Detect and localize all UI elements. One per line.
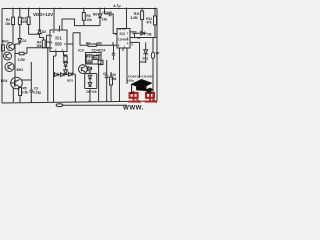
resistor R5 body xyxy=(19,88,22,96)
wire pin3 vertical xyxy=(72,33,74,75)
diode D3 xyxy=(98,14,102,18)
transistor BG4 xyxy=(11,77,23,89)
watermark chong glyph 1 xyxy=(128,91,140,103)
wire pin2 down long xyxy=(47,48,49,101)
wire pin8 xyxy=(53,9,55,31)
diode D6 xyxy=(55,73,59,77)
transistor BG2 xyxy=(4,52,12,60)
svg-text:47k: 47k xyxy=(146,21,152,25)
wire R3 bottom xyxy=(29,25,40,35)
wire R6 bottom horizontal xyxy=(83,20,85,25)
diode bridge loop xyxy=(85,74,97,89)
resistor R4 body xyxy=(42,40,45,48)
svg-text:BG5: BG5 xyxy=(67,79,74,83)
capacitor C9v xyxy=(133,32,137,38)
transistor BG3 xyxy=(5,63,14,72)
transistor BG1 xyxy=(7,43,15,51)
wire IC2 pin right2 xyxy=(130,37,157,39)
svg-text:VDD+12V: VDD+12V xyxy=(33,12,53,17)
wire right rail xyxy=(156,9,158,102)
wire zener bottom xyxy=(140,42,146,78)
svg-text:0.33μ: 0.33μ xyxy=(33,91,41,95)
IC2 box xyxy=(117,29,130,49)
svg-text:4.7μ: 4.7μ xyxy=(113,4,121,8)
resistor R10a box xyxy=(93,55,99,59)
wire C8 right down xyxy=(113,14,117,34)
transistor BG4 internals xyxy=(15,80,20,87)
wire left rail xyxy=(1,9,3,104)
wire pin2 left to left column xyxy=(27,48,44,53)
wire R1 bottom xyxy=(19,25,21,39)
wire R7 right xyxy=(96,42,117,45)
wire D1 down xyxy=(15,42,20,44)
svg-text:1M: 1M xyxy=(147,33,152,37)
svg-text:WWW.: WWW. xyxy=(123,105,144,110)
wire pin3 top horizontal xyxy=(73,33,80,43)
svg-text:IC2: IC2 xyxy=(120,32,126,36)
wire pin4 xyxy=(59,26,61,31)
resistor R1 body xyxy=(18,17,21,24)
wire IC2 bottom mid xyxy=(126,48,128,84)
capacitor C10b xyxy=(105,60,109,101)
IC3 box xyxy=(86,53,102,65)
wire BG4 base xyxy=(10,82,15,84)
svg-text:8.2M: 8.2M xyxy=(131,16,138,20)
resistor R7 body xyxy=(88,44,96,46)
wire 2.2M right xyxy=(24,52,27,54)
transistor BG2 internals xyxy=(6,54,10,59)
wire pin3 stub xyxy=(67,43,73,45)
svg-text:10k: 10k xyxy=(36,44,42,48)
wire IC2 pin right1 xyxy=(130,31,133,33)
resistor R9 box xyxy=(86,55,92,63)
wire BG4 collector to C3 xyxy=(21,62,31,87)
piezo YD xyxy=(151,52,154,59)
resistor R3 body xyxy=(27,17,30,25)
svg-text:5 C8: 5 C8 xyxy=(102,11,109,15)
wire IC2 pin right3 xyxy=(130,41,140,43)
wire BG4 emitter down xyxy=(19,87,21,88)
watermark chong glyph 2 xyxy=(145,91,157,103)
wire pin7-6 vertical xyxy=(46,35,48,48)
wire D2 bottom to R4 xyxy=(40,34,44,40)
svg-text:15k: 15k xyxy=(5,22,11,26)
wire R7 left xyxy=(80,43,88,45)
IC1 555 box xyxy=(50,30,67,52)
wire R11 bottom xyxy=(141,20,143,34)
svg-text:0.5k: 0.5k xyxy=(22,91,28,95)
wire BG4 second lead xyxy=(12,88,14,102)
wire 555 top link xyxy=(62,19,100,30)
wire R1 top xyxy=(19,9,21,18)
wire diode row xyxy=(54,73,76,75)
wire left column vertical xyxy=(14,44,16,87)
capacitor C7 xyxy=(112,45,115,60)
wire R5 to rail xyxy=(19,96,21,102)
wire C8 left xyxy=(104,9,106,14)
svg-text:680: 680 xyxy=(97,41,103,45)
svg-text:100μ: 100μ xyxy=(127,78,134,82)
capacitor C8 xyxy=(105,12,114,17)
resistor R2 body xyxy=(12,17,15,24)
wire R4 bottom to pin2 xyxy=(44,47,50,49)
caption line xyxy=(63,104,127,106)
wire pin1 down xyxy=(55,52,57,57)
diode Dx1 xyxy=(64,62,68,66)
svg-text:BG4: BG4 xyxy=(1,79,8,83)
svg-text:CD4060: CD4060 xyxy=(118,38,129,42)
wire top VDD rail xyxy=(2,8,157,10)
paper background xyxy=(0,0,160,110)
wire x98.6 vertical xyxy=(98,64,100,101)
svg-text:D1: D1 xyxy=(22,39,26,43)
wire IC2 pin bottom stub xyxy=(122,48,124,51)
diode D2 xyxy=(38,30,42,34)
paper noise xyxy=(0,0,160,110)
svg-text:2.2M: 2.2M xyxy=(18,58,25,62)
transistor BG5 internals xyxy=(81,66,85,71)
diode D8 xyxy=(69,72,73,76)
diode D10 xyxy=(88,83,92,87)
svg-text:BG1: BG1 xyxy=(2,40,9,44)
diode Dr1 xyxy=(141,32,145,36)
wire D9-D10 xyxy=(89,70,91,101)
diode D5 xyxy=(88,67,92,71)
svg-text:12: 12 xyxy=(137,36,141,40)
wire IC2 pin16 stub to rail xyxy=(126,9,128,29)
svg-text:10k: 10k xyxy=(86,59,92,63)
wire IC2 bottom left xyxy=(119,48,121,101)
wire YD bottom xyxy=(152,59,154,101)
resistor on left frame xyxy=(1,45,4,51)
resistor R12 body xyxy=(154,16,157,25)
wire BG5 top xyxy=(82,63,84,66)
diode Dx2 xyxy=(64,70,68,74)
svg-text:BG3: BG3 xyxy=(17,68,24,72)
wire R2 bottom to BG1 xyxy=(12,25,14,43)
svg-text:C7C: C7C xyxy=(96,53,103,57)
junction ticks bottom rail xyxy=(20,100,153,102)
resistor R10 body xyxy=(110,77,113,85)
wire bottom ground rail xyxy=(2,101,157,103)
resistor 2.2M body xyxy=(19,52,24,55)
wire R3 top xyxy=(28,9,30,18)
resistor R6 body xyxy=(82,13,85,21)
capacitor C3 xyxy=(30,87,33,102)
wire D3 top xyxy=(99,9,101,15)
logo mortarboard big xyxy=(130,79,152,89)
transistor BG1 internals xyxy=(9,44,13,49)
svg-text:YD: YD xyxy=(155,51,160,55)
wire diode string xyxy=(64,55,68,75)
svg-text:R7: R7 xyxy=(86,41,90,45)
caption oval xyxy=(56,104,63,107)
svg-text:D6~D9: D6~D9 xyxy=(87,90,97,94)
wire R10 up xyxy=(110,72,112,77)
svg-text:10k: 10k xyxy=(86,18,92,22)
junction ticks top rail xyxy=(13,8,155,10)
zener DW xyxy=(143,42,148,62)
wire pin2 stub xyxy=(47,47,51,49)
wire pin6 stub xyxy=(47,41,51,43)
svg-text:D11: D11 xyxy=(143,57,149,61)
wire D3 bottom xyxy=(99,18,101,26)
svg-text:10k: 10k xyxy=(102,17,108,21)
wire R12 top xyxy=(154,9,156,17)
svg-text:10 16: 10 16 xyxy=(118,27,126,31)
svg-text:IC1: IC1 xyxy=(55,36,62,41)
wire pin5 down xyxy=(63,52,65,57)
wire top rail junction to x142 xyxy=(141,9,143,12)
resistor R8 body small xyxy=(64,56,67,61)
svg-text:IC3: IC3 xyxy=(78,49,83,53)
svg-text:R8: R8 xyxy=(93,13,97,17)
svg-text:C8: C8 xyxy=(103,72,107,76)
diode D7 xyxy=(61,73,65,77)
wire mid link xyxy=(54,55,66,57)
diode D9 xyxy=(88,75,92,79)
wire R12 bottom xyxy=(154,25,156,38)
wire R6 top xyxy=(83,9,85,13)
wire x75.4 vertical xyxy=(74,74,76,101)
small box mid xyxy=(98,60,103,64)
wire YD top xyxy=(152,38,154,53)
resistor R11 body xyxy=(141,11,144,20)
wire D5 link xyxy=(87,68,89,73)
text labels xyxy=(1,4,160,95)
wire 2.2M left xyxy=(15,52,19,54)
svg-text:555: 555 xyxy=(55,42,63,47)
logo small cap xyxy=(144,88,154,93)
transistor BG5 xyxy=(79,65,88,74)
wire pin7 stub xyxy=(47,34,51,36)
svg-text:15k: 15k xyxy=(111,77,117,81)
diode D1 xyxy=(18,39,22,43)
wire Dr1 link xyxy=(137,32,148,34)
wire R2 top xyxy=(12,9,14,18)
svg-text:D2: D2 xyxy=(42,30,46,34)
wire R10 down xyxy=(110,85,112,101)
wire D2 top to rail xyxy=(39,9,41,31)
transistor BG3 internals xyxy=(8,64,12,69)
wire mid vertical x53.5 xyxy=(53,56,55,102)
svg-text:100k: 100k xyxy=(21,20,28,24)
